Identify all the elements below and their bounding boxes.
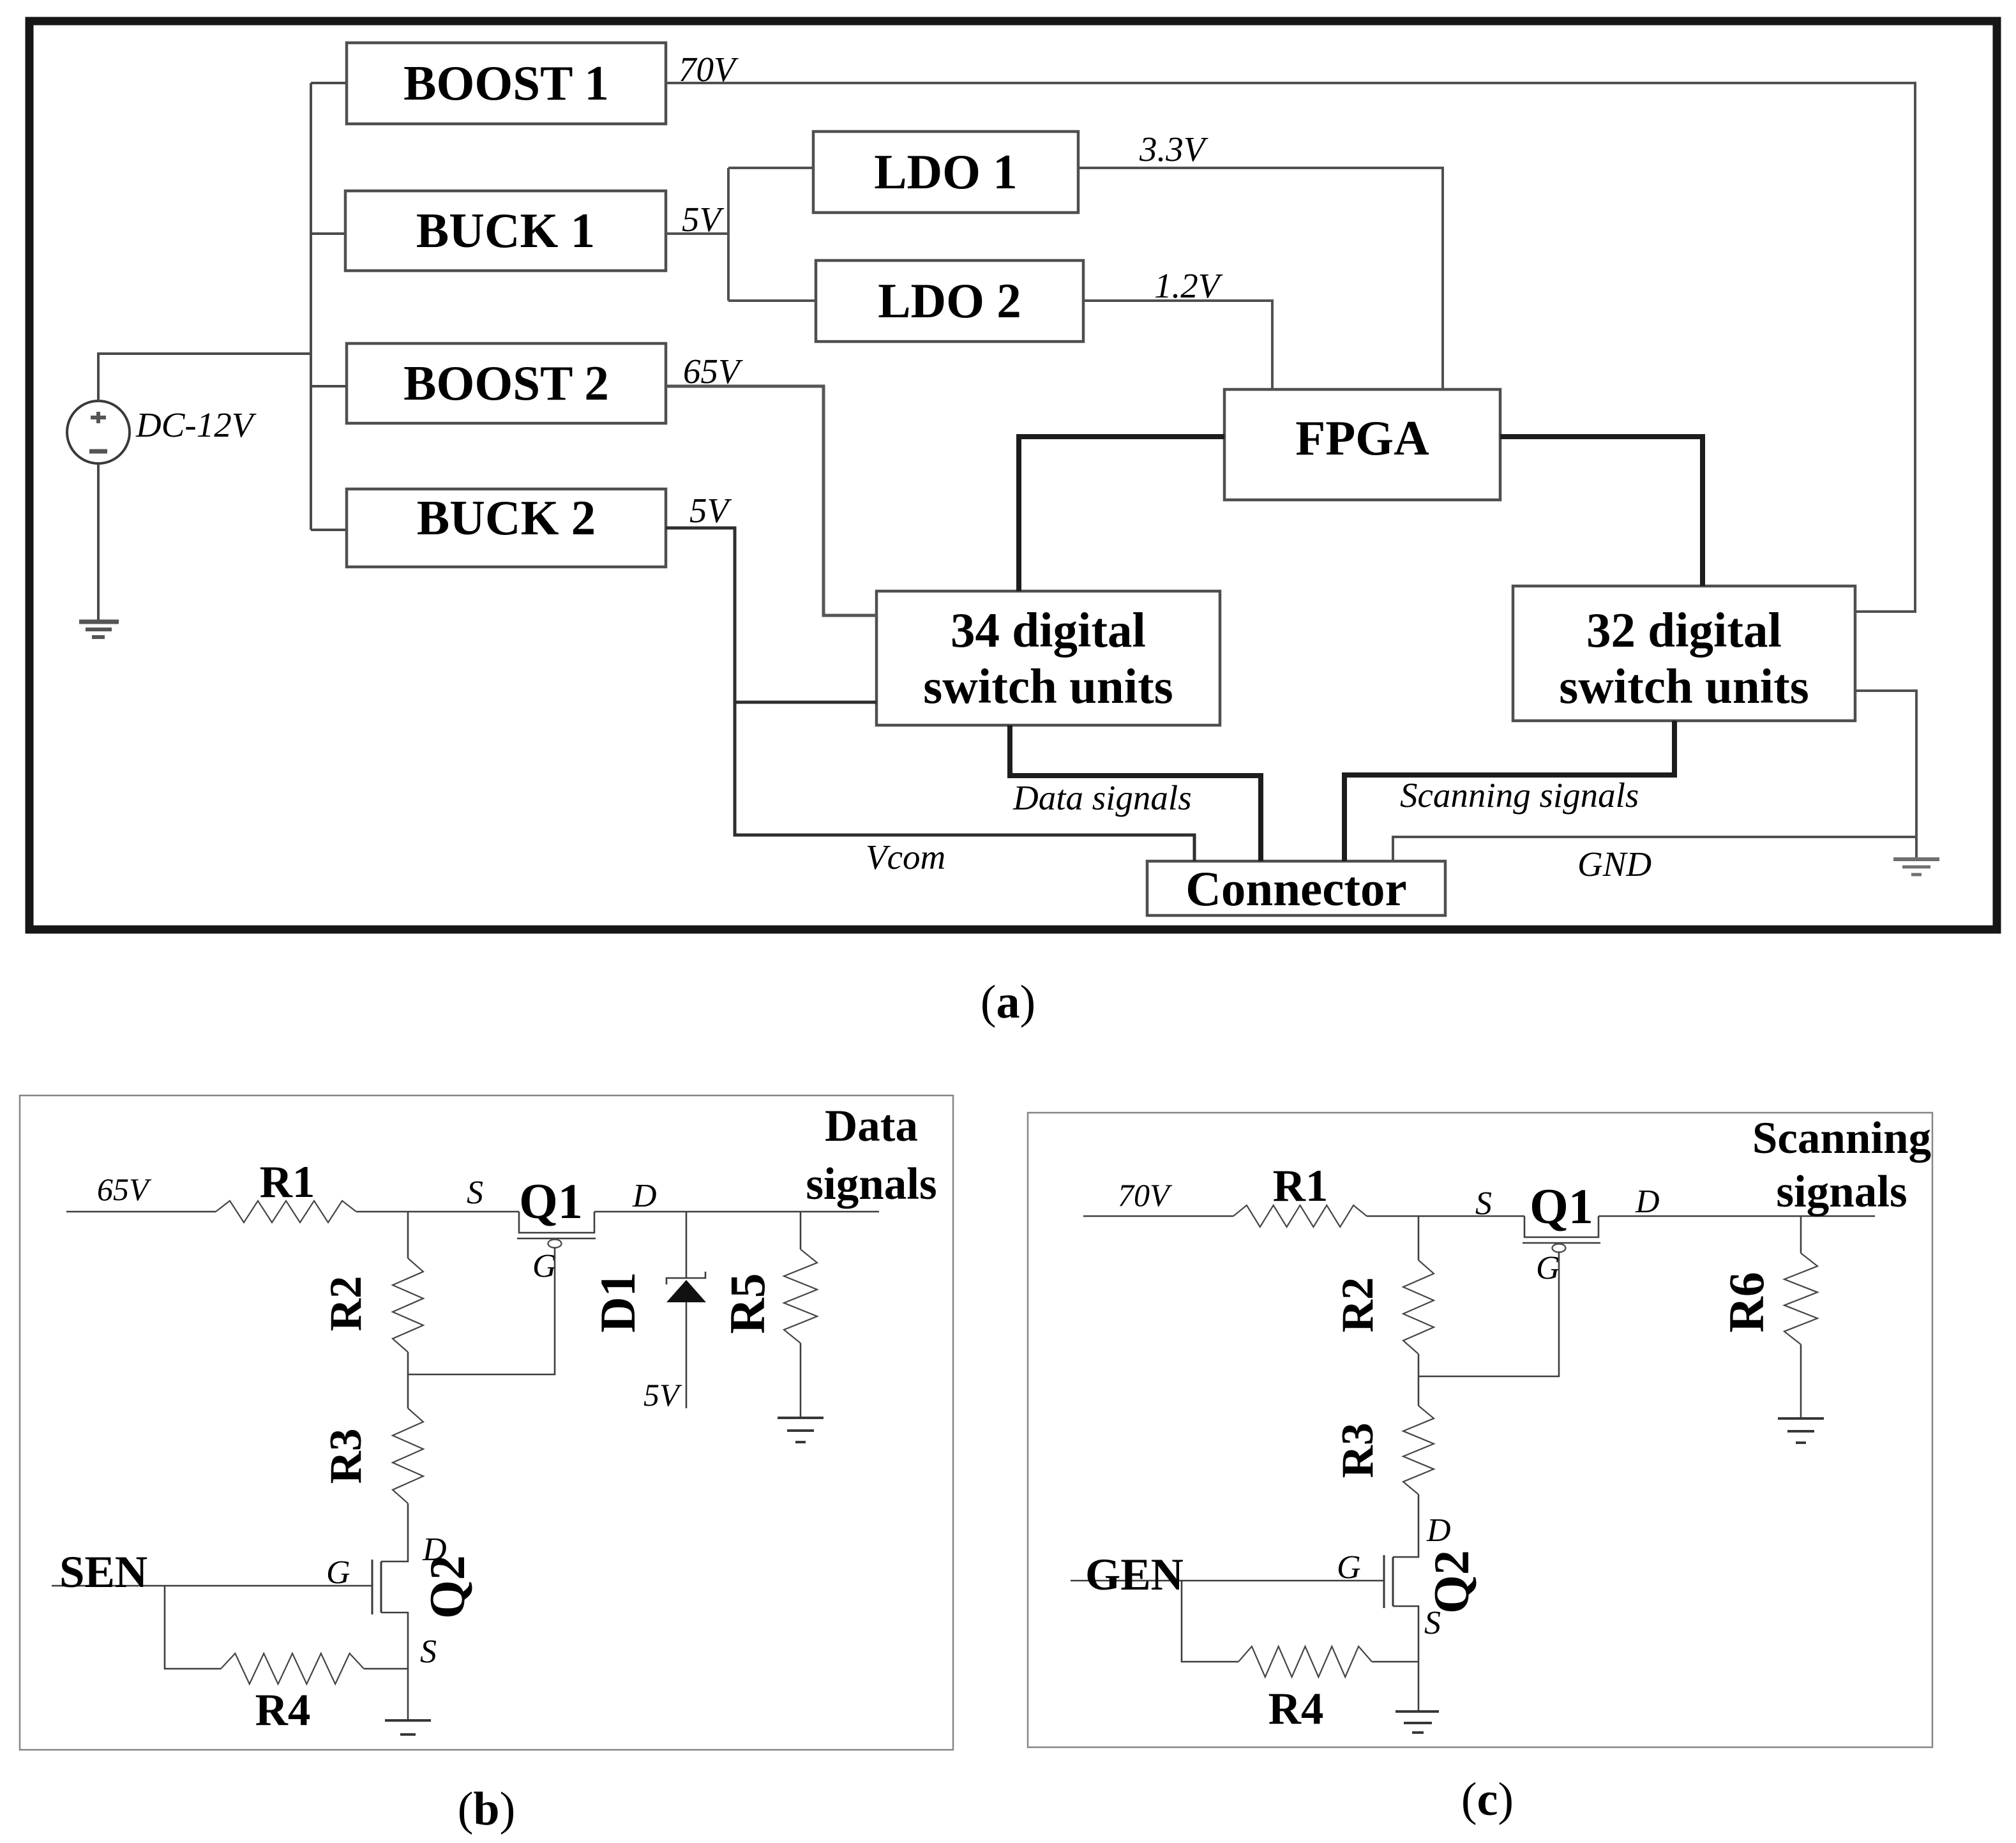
wire R2 to node and node to R3: [407, 1352, 409, 1408]
svg-text:5V: 5V: [682, 200, 725, 239]
wire R3 to Q2 drain: [381, 1503, 408, 1561]
wire rail to R5: [800, 1212, 802, 1249]
svg-text:D: D: [1426, 1512, 1451, 1549]
svg-text:SEN: SEN: [59, 1547, 147, 1597]
svg-text:5V: 5V: [689, 491, 732, 530]
svg-text:R1: R1: [260, 1157, 315, 1207]
svg-text:Q2: Q2: [1424, 1550, 1479, 1614]
svg-text:32 digital: 32 digital: [1586, 603, 1782, 658]
zener diode D1 triangle: [666, 1280, 706, 1302]
svg-text:BOOST 1: BOOST 1: [403, 56, 609, 110]
svg-text:(b): (b): [458, 1783, 515, 1835]
svg-text:Q1: Q1: [1530, 1178, 1593, 1234]
wire Q2 source jog and down (c): [1393, 1606, 1418, 1711]
block Connector: [1147, 861, 1445, 916]
wire rail R1 to Q1 source (c): [1367, 1215, 1524, 1217]
svg-text:signals: signals: [1776, 1167, 1907, 1217]
resistor R5: [784, 1249, 817, 1343]
svg-text:R3: R3: [321, 1429, 371, 1484]
svg-text:Q2: Q2: [419, 1555, 475, 1619]
resistor R1 (c): [1233, 1205, 1367, 1227]
outer frame of block diagram (a): [29, 21, 1997, 929]
transistor Q1 (b) p-MOSFET body: [519, 1212, 594, 1233]
panel frame (b): [20, 1095, 953, 1750]
wire node to Q1 gate: [408, 1247, 555, 1374]
wire LDO input junction vertical: [727, 168, 730, 301]
svg-text:G: G: [1337, 1549, 1361, 1586]
node S junction wire down to R2: [407, 1212, 409, 1258]
svg-text:LDO 1: LDO 1: [874, 144, 1018, 199]
wire 5V branch into 34 digital switch units: [735, 701, 876, 704]
resistor R2 (c): [1403, 1260, 1434, 1354]
svg-text:Data: Data: [825, 1101, 918, 1151]
svg-text:65V: 65V: [683, 352, 743, 391]
resistor R4 (c): [1238, 1646, 1372, 1677]
wire R5 to ground: [800, 1343, 802, 1418]
svg-text:Connector: Connector: [1185, 861, 1406, 916]
resistor R4 (b): [221, 1653, 364, 1684]
ground symbol at dc source: [79, 622, 119, 637]
label Scanning signals title: [1752, 1113, 1931, 1217]
svg-text:GND: GND: [1577, 845, 1651, 884]
wire input bus vertical: [310, 83, 312, 530]
wire 65V net: BOOST 2 to 34 digital switch units: [666, 386, 876, 615]
resistor R3 (c): [1403, 1406, 1434, 1494]
wire Q1 drain rail segment (c): [1599, 1215, 1875, 1217]
node junction wire down to R2 (c): [1418, 1216, 1420, 1260]
svg-text:FPGA: FPGA: [1295, 410, 1429, 465]
wire BUCK 1 5V output to LDO junction: [666, 232, 728, 235]
block BOOST 2: [347, 343, 666, 423]
svg-text:G: G: [532, 1248, 557, 1284]
svg-text:65V: 65V: [97, 1171, 152, 1207]
svg-text:R4: R4: [255, 1685, 311, 1735]
svg-text:BUCK 1: BUCK 1: [416, 203, 595, 258]
wire D1 anode to 5V: [686, 1302, 688, 1408]
svg-text:70V: 70V: [1118, 1177, 1173, 1213]
wire GND net: Connector to right ground: [1393, 837, 1916, 861]
wire SEN input to Q2 gate: [52, 1585, 372, 1587]
wire R4 to Q2 source (c): [1372, 1661, 1418, 1663]
wire R6 to ground: [1800, 1344, 1802, 1418]
svg-text:BOOST 2: BOOST 2: [403, 356, 609, 410]
ground symbol under R6: [1778, 1418, 1824, 1443]
ground symbol at Q2 (c): [1395, 1711, 1439, 1733]
svg-text:Vcom: Vcom: [866, 838, 945, 876]
wire rail R1 to Q1 source: [356, 1211, 519, 1213]
wire Scanning signals net: 32 switch units to Connector: [1344, 721, 1674, 861]
transistor Q1 (c) gate bubble: [1553, 1244, 1566, 1252]
svg-text:DC-12V: DC-12V: [135, 405, 257, 444]
block 32 digital switch units: [1513, 586, 1855, 721]
svg-text:signals: signals: [806, 1159, 937, 1209]
wire stub to BOOST 1: [311, 82, 347, 84]
wire Data signals net: 34 switch units to Connector: [1010, 725, 1261, 861]
wire dc source bottom to ground: [97, 464, 100, 620]
ground symbol at Q2 (b): [385, 1720, 431, 1734]
label Data signals title: [806, 1101, 937, 1209]
svg-text:G: G: [1536, 1250, 1560, 1286]
zener diode D1 wire from rail: [686, 1212, 688, 1278]
svg-text:R1: R1: [1273, 1161, 1328, 1211]
zener diode D1 cathode bar: [666, 1272, 705, 1284]
svg-text:S: S: [420, 1634, 437, 1670]
svg-text:switch units: switch units: [1559, 659, 1809, 714]
wire GEN input to Q2 gate: [1071, 1580, 1384, 1582]
svg-text:S: S: [1424, 1605, 1441, 1641]
svg-text:S: S: [467, 1175, 483, 1211]
wire 32 switch units to GND vertical: [1855, 691, 1916, 857]
block BUCK 2: [347, 489, 666, 567]
wire rail to R6: [1800, 1216, 1802, 1253]
resistor R6: [1784, 1253, 1817, 1344]
svg-text:5V: 5V: [643, 1377, 682, 1413]
transistor Q2 (c) channel bar: [1392, 1557, 1394, 1606]
transistor Q2 (b) channel bar: [380, 1561, 382, 1613]
block FPGA: [1224, 389, 1500, 500]
wire stub to BOOST 2: [311, 385, 347, 387]
block LDO 2: [816, 260, 1083, 342]
wire R4 to Q2 source: [364, 1668, 408, 1670]
svg-text:R6: R6: [1719, 1272, 1774, 1332]
svg-text:S: S: [1475, 1185, 1492, 1222]
svg-text:Scanning: Scanning: [1752, 1113, 1931, 1163]
resistor R3 (b): [393, 1408, 423, 1503]
wire FPGA to 32 digital switch units: [1500, 437, 1703, 586]
ground symbol under R5: [778, 1418, 824, 1442]
svg-text:BUCK 2: BUCK 2: [417, 490, 596, 545]
resistor R2 (b): [393, 1258, 423, 1352]
svg-text:D: D: [632, 1178, 657, 1214]
svg-text:Q1: Q1: [519, 1173, 583, 1229]
panel frame (c): [1028, 1113, 1932, 1747]
wire 1.2V net: LDO 2 to FPGA: [1083, 301, 1272, 389]
svg-text:(c): (c): [1461, 1773, 1514, 1826]
wire Q2 source jog and down: [381, 1613, 408, 1720]
transistor Q1 (c) gate plate: [1523, 1242, 1600, 1244]
wire stub to BUCK 1: [311, 232, 345, 235]
svg-text:G: G: [326, 1554, 350, 1591]
svg-text:R3: R3: [1333, 1423, 1383, 1478]
block LDO 1: [813, 132, 1078, 213]
svg-text:GEN: GEN: [1085, 1550, 1184, 1600]
svg-text:D1: D1: [590, 1272, 645, 1332]
svg-text:LDO 2: LDO 2: [878, 273, 1021, 328]
svg-text:3.3V: 3.3V: [1139, 130, 1208, 169]
wire 5V net from BUCK 2 and Vcom line to Connector: [666, 528, 1194, 861]
svg-text:34 digital: 34 digital: [951, 603, 1146, 658]
wire 70V net: BOOST 1 output to 32 digital switch units: [666, 83, 1915, 612]
svg-text:R4: R4: [1268, 1684, 1324, 1734]
block BOOST 1: [347, 43, 666, 124]
wire junction to LDO 1: [728, 167, 815, 169]
wire dc source top to input bus: [98, 354, 311, 401]
transistor Q1 (c) p-MOSFET body: [1524, 1216, 1599, 1237]
wire 65V rail left segment: [66, 1211, 216, 1213]
wire 70V rail left segment: [1083, 1215, 1233, 1217]
ground symbol bottom right: [1893, 859, 1939, 875]
wire 3.3V net: LDO 1 to FPGA: [1078, 168, 1443, 389]
dc source V1 DC-12V: [67, 401, 130, 463]
svg-text:(a): (a): [981, 976, 1035, 1028]
block 34 digital switch units: [876, 591, 1220, 725]
block BUCK 1: [345, 191, 666, 271]
svg-text:1.2V: 1.2V: [1154, 266, 1223, 305]
wire R2 to node to R3 (c): [1418, 1354, 1420, 1406]
svg-text:Scanning signals: Scanning signals: [1400, 776, 1639, 815]
wire node to Q1 gate (c): [1418, 1252, 1559, 1376]
resistor R1 (b): [216, 1201, 356, 1222]
svg-text:Data signals: Data signals: [1012, 778, 1192, 817]
wire SEN branch down to R4: [165, 1586, 221, 1669]
svg-text:R5: R5: [719, 1273, 775, 1334]
svg-text:R2: R2: [321, 1276, 371, 1332]
transistor Q1 (b) gate plate: [517, 1238, 596, 1240]
wire Q1 drain rail segment: [594, 1211, 879, 1213]
transistor Q1 (b) gate bubble: [548, 1240, 562, 1248]
wire junction to LDO 2: [728, 299, 816, 302]
wire stub to BUCK 2: [311, 529, 347, 531]
transistor Q2 (b) gate bar: [372, 1560, 373, 1614]
transistor Q2 (c) gate bar: [1383, 1555, 1385, 1608]
wire GEN branch down to R4 (c): [1182, 1581, 1238, 1662]
svg-text:switch units: switch units: [923, 659, 1173, 714]
wire R3 to Q2 drain (c): [1393, 1494, 1418, 1557]
svg-text:70V: 70V: [679, 50, 739, 89]
svg-text:D: D: [1635, 1184, 1660, 1220]
wire FPGA to 34 digital switch units: [1019, 437, 1224, 591]
svg-text:R2: R2: [1333, 1277, 1383, 1333]
